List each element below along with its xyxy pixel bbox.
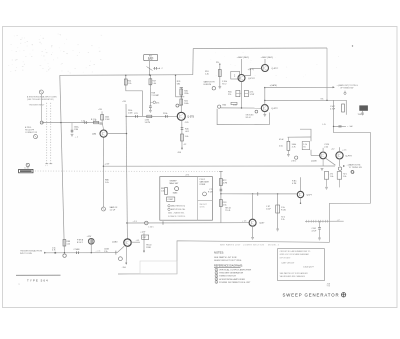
svg-text:NOTES:: NOTES:	[214, 250, 224, 254]
svg-text:47k: 47k	[156, 102, 159, 104]
svg-text:100k: 100k	[184, 103, 188, 105]
svg-text:MAG: MAG	[173, 191, 178, 194]
svg-text:LOWER SECTION: LOWER SECTION	[243, 244, 265, 246]
svg-text:2.7k: 2.7k	[292, 146, 296, 148]
svg-text:1.0uF: 1.0uF	[266, 208, 272, 210]
svg-text:MAG SET: MAG SET	[170, 182, 180, 185]
svg-text:SEE PARTS LIST FOR: SEE PARTS LIST FOR	[214, 256, 237, 259]
svg-text:1.5M: 1.5M	[105, 119, 110, 121]
svg-text:+ 1.5: + 1.5	[242, 221, 246, 223]
svg-text:2.2k: 2.2k	[128, 83, 132, 85]
svg-text:1.0k: 1.0k	[67, 243, 71, 245]
svg-text:R UU: R UU	[281, 210, 286, 212]
svg-text:+(NL 2): +(NL 2)	[248, 69, 255, 71]
svg-text:1.7W: 1.7W	[250, 94, 255, 96]
svg-text:+ (SAWTOOTH): + (SAWTOOTH)	[347, 163, 361, 166]
svg-text:MAG + RANGE SEL: MAG + RANGE SEL	[168, 212, 184, 215]
svg-text:IMPORTANT: IMPORTANT	[280, 256, 292, 259]
svg-text:+12V: +12V	[140, 231, 146, 233]
svg-text:AMPLITUDE CAL: AMPLITUDE CAL	[171, 208, 185, 211]
svg-text:+ 2: + 2	[337, 219, 340, 221]
svg-text:Q12N: Q12N	[311, 160, 317, 162]
svg-text:TRIGGER GENERATOR: TRIGGER GENERATOR	[219, 272, 244, 275]
svg-text:1.4 B/L: 1.4 B/L	[24, 167, 29, 169]
svg-text:Q-FT9: Q-FT9	[345, 155, 352, 157]
svg-text:68k: 68k	[177, 84, 180, 86]
svg-text:+ .1 C: + .1 C	[96, 251, 102, 253]
svg-text:220k: 220k	[163, 113, 167, 115]
svg-text:INPUT: INPUT	[148, 59, 153, 61]
svg-text:SWEEP GENERATOR: SWEEP GENERATOR	[283, 292, 340, 297]
svg-text:+ .1: + .1	[75, 136, 78, 138]
svg-text:C.05: C.05	[81, 121, 85, 123]
svg-text:R180: R180	[146, 247, 151, 249]
svg-text:Q-FT2: Q-FT2	[271, 108, 278, 110]
svg-text:(SEE TRIGGER GENERATOR): (SEE TRIGGER GENERATOR)	[27, 98, 54, 101]
svg-text:Q-B7: Q-B7	[259, 223, 265, 225]
svg-text:VALUES AND S/N CHANGES: VALUES AND S/N CHANGES	[280, 275, 306, 278]
svg-text:1.0k: 1.0k	[161, 190, 164, 192]
svg-text:LAST CIRCUIT: LAST CIRCUIT	[282, 261, 296, 264]
svg-text:Q-5TB: Q-5TB	[187, 116, 194, 118]
svg-text:SR 44: SR 44	[246, 117, 251, 119]
svg-text:1.4k: 1.4k	[185, 136, 189, 138]
svg-text:+5V: +5V	[122, 101, 126, 103]
svg-text:+100V (DEC): +100V (DEC)	[261, 57, 274, 59]
svg-text:VERTICAL OUTPUT AMPLIFIER: VERTICAL OUTPUT AMPLIFIER	[219, 269, 252, 272]
svg-text:+ 1.5: + 1.5	[133, 221, 137, 223]
svg-text:1.4k: 1.4k	[205, 73, 209, 75]
svg-text:1.0k: 1.0k	[330, 176, 334, 178]
svg-text:1.5M: 1.5M	[128, 113, 133, 115]
svg-text:2.2k: 2.2k	[324, 147, 328, 149]
svg-text:COMP: COMP	[168, 199, 174, 201]
svg-text:SEE PARTS LIST: SEE PARTS LIST	[220, 243, 241, 246]
svg-text:+12V: +12V	[87, 236, 92, 238]
svg-text:L.D.: L.D.	[323, 124, 327, 126]
svg-text:1.47M: 1.47M	[145, 122, 151, 124]
svg-text:1.5k: 1.5k	[104, 251, 108, 253]
svg-text:GRID LOC OF SCHEM DIAGRAM: GRID LOC OF SCHEM DIAGRAM	[280, 253, 309, 256]
svg-text:Q377: Q377	[307, 194, 313, 196]
svg-text:5%: 5%	[321, 98, 324, 100]
svg-text:CONNECTOR: CONNECTOR	[25, 132, 38, 134]
svg-text:TYPE 564: TYPE 564	[27, 279, 49, 283]
svg-text:↕ ↕: ↕ ↕	[45, 164, 48, 167]
svg-text:SEMICONDUCTOR TYPES.: SEMICONDUCTOR TYPES.	[214, 260, 242, 262]
svg-text:LENGTH: LENGTH	[204, 84, 212, 86]
svg-text:INPUT CONN: INPUT CONN	[20, 253, 32, 255]
svg-text:2.5k: 2.5k	[279, 145, 283, 147]
svg-text:+5V: +5V	[98, 109, 102, 111]
svg-text:MODEL 2: MODEL 2	[268, 244, 280, 246]
svg-text:(MAG REGIS 1X): (MAG REGIS 1X)	[171, 205, 185, 208]
svg-text:+ 2.5: + 2.5	[342, 149, 346, 151]
svg-text:4.7M: 4.7M	[223, 183, 228, 185]
svg-text:OF TIMING SW: OF TIMING SW	[340, 88, 354, 90]
svg-text:B 5U 2: B 5U 2	[77, 242, 83, 244]
svg-text:C154 Q377: C154 Q377	[303, 267, 314, 269]
svg-text:1.0 uF: 1.0 uF	[110, 210, 116, 212]
svg-text:SEE PARTS LIST FOR EARLIER: SEE PARTS LIST FOR EARLIER	[280, 272, 309, 275]
svg-text:Q180: Q180	[112, 241, 118, 243]
svg-text:TD 41: TD 41	[225, 210, 230, 212]
svg-text:C NNB: C NNB	[74, 249, 81, 251]
svg-text:TIMING: TIMING	[358, 114, 365, 116]
svg-text:Q-PC2: Q-PC2	[248, 78, 255, 80]
svg-text:T.COMP: T.COMP	[151, 95, 159, 97]
svg-text:4.7uF: 4.7uF	[312, 231, 318, 233]
svg-text:47uF: 47uF	[279, 139, 284, 141]
svg-text:5: 5	[216, 282, 217, 284]
svg-text:+100V (DEC): +100V (DEC)	[237, 57, 250, 59]
svg-text:R NNN: R NNN	[200, 184, 206, 186]
svg-text:4.7M: 4.7M	[292, 183, 297, 185]
svg-text:C 50 5: C 50 5	[148, 226, 154, 228]
svg-text:1.0k: 1.0k	[343, 176, 347, 178]
svg-text:1.0k: 1.0k	[105, 182, 109, 184]
svg-text:2.2k: 2.2k	[281, 219, 285, 221]
svg-text:REFERENCE DIAGRAMS:: REFERENCE DIAGRAMS:	[214, 265, 243, 268]
svg-text:4.7k: 4.7k	[52, 250, 56, 252]
svg-text:1.5M: 1.5M	[74, 129, 79, 131]
svg-text:+2.5V: +2.5V	[105, 164, 111, 166]
svg-text:FLYBACK CONTROL: FLYBACK CONTROL	[168, 215, 185, 218]
svg-text:HORIZONTAL AMPLIFIER: HORIZONTAL AMPLIFIER	[219, 278, 245, 281]
svg-text:TO TIMING SW: TO TIMING SW	[349, 167, 362, 169]
svg-text:27.5: 27.5	[186, 174, 190, 176]
svg-text:CIRCUIT NO. AN NUMBER REF TO: CIRCUIT NO. AN NUMBER REF TO	[280, 250, 311, 253]
svg-text:1.0k: 1.0k	[152, 83, 156, 85]
svg-text:1.5k: 1.5k	[223, 205, 227, 207]
svg-text:1.0k: 1.0k	[233, 105, 237, 107]
svg-text:27k: 27k	[228, 94, 231, 96]
svg-text:L 88 2: L 88 2	[291, 161, 296, 163]
svg-text:TRIGGER INPUT: TRIGGER INPUT	[29, 104, 45, 106]
svg-text:+ .1uF: + .1uF	[347, 126, 353, 128]
svg-text:POWER DISTRIBUTION & CRT: POWER DISTRIBUTION & CRT	[219, 282, 251, 284]
svg-text:Q-FTC: Q-FTC	[272, 68, 279, 70]
svg-text:+(GATE): +(GATE)	[270, 84, 278, 87]
svg-text:+1.5: +1.5	[136, 240, 140, 242]
svg-text:4.7uF: 4.7uF	[330, 108, 336, 110]
svg-text:1X 5X: 1X 5X	[200, 207, 206, 209]
svg-text:TIMING SWITCH: TIMING SWITCH	[219, 276, 236, 278]
svg-text:220k: 220k	[184, 93, 188, 95]
svg-text:1.2k: 1.2k	[93, 121, 97, 123]
